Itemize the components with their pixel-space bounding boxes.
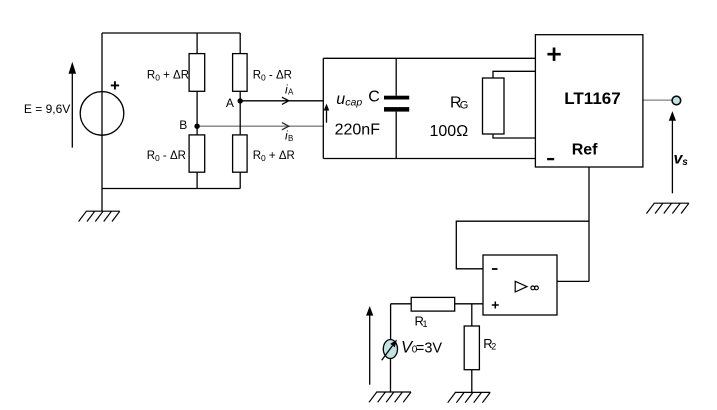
svg-text:2: 2: [491, 342, 496, 352]
svg-text:1: 1: [423, 319, 428, 329]
svg-text:100Ω: 100Ω: [430, 123, 469, 140]
svg-text:u: u: [336, 91, 345, 108]
svg-text:R0 + ΔR: R0 + ΔR: [147, 70, 189, 83]
svg-text:R0 + ΔR: R0 + ΔR: [253, 150, 295, 163]
svg-text:A: A: [226, 96, 234, 110]
svg-text:C: C: [368, 89, 380, 106]
svg-text:LT1167: LT1167: [564, 89, 620, 108]
svg-text:B: B: [288, 134, 293, 143]
svg-text:220nF: 220nF: [335, 122, 381, 139]
svg-text:R0 - ΔR: R0 - ΔR: [253, 70, 292, 83]
svg-text:G: G: [460, 100, 469, 112]
svg-text:s: s: [682, 157, 688, 168]
svg-text:cap: cap: [345, 97, 362, 109]
svg-text:R0 - ΔR: R0 - ΔR: [147, 150, 186, 163]
svg-text:A: A: [288, 88, 294, 97]
svg-text:B: B: [179, 118, 187, 132]
svg-text:=3V: =3V: [416, 341, 443, 357]
svg-text:Ref: Ref: [572, 141, 598, 158]
svg-text:E = 9,6V: E = 9,6V: [24, 102, 70, 116]
